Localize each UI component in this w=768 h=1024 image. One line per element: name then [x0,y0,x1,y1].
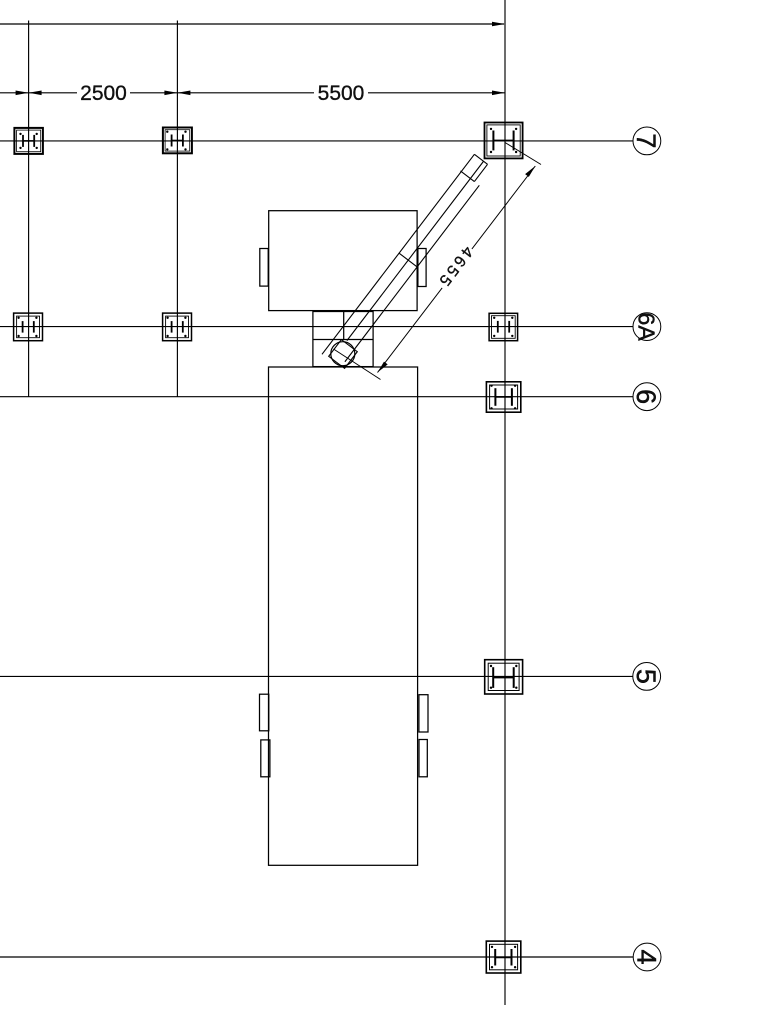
column K8 at grid 5 [485,660,523,694]
rear wheel right 1 [419,695,428,732]
crane swivel circle [331,342,355,366]
svg-text:6A: 6A [634,313,660,342]
column K7 at grid 6 [486,382,520,412]
column K6 at grid 6A right [489,313,517,340]
grid bubble 4 [633,943,661,971]
svg-text:2500: 2500 [80,82,127,105]
arrowhead pair at grid A intersection x=28.6 [16,91,29,96]
grid bubble 6 [633,383,661,411]
grid bubble 5 [633,663,661,691]
grid line 4 [0,956,633,958]
mount horizontal divider [313,339,373,341]
boom upper side line [322,154,474,354]
crane mount frame [313,312,373,367]
right front wheel tab [418,249,426,287]
grid line 7 [0,140,633,142]
column K2 at grid B/7 [163,128,192,154]
left front wheel tab [260,249,268,287]
grid line vertical V3 [504,0,506,1005]
grid bubble 6A [633,313,661,341]
grid extension line vertical V1 [28,21,30,397]
mount vertical divider [343,312,345,340]
boom tip lower edge [474,164,487,181]
arrowhead right of overall top dimension [492,22,505,27]
column K1 at grid A/7 [14,128,43,154]
rear wheel left 2 [261,740,270,777]
boom middle line [347,161,484,340]
dimension extension line at swivel [334,349,381,380]
svg-text:5500: 5500 [318,82,365,105]
arrowhead right at x=505 [492,91,505,96]
grid bubble 7 [633,127,661,155]
dimension text 4655 [433,242,477,292]
truck body [269,367,418,865]
boom joint cap [399,253,417,267]
rear wheel left 1 [260,694,269,731]
column K3 at grid 7 large [485,123,523,159]
crane superstructure body [269,211,417,311]
arrowhead upper of 4655 [525,166,535,177]
arrowhead lower of 4655 [378,362,388,373]
grid line 6A [0,326,633,328]
column K5 at grid B/6A [163,313,192,341]
grid extension line vertical V2 [176,21,178,397]
column K9 at grid 4 [486,941,521,973]
dimension line 4655 [378,166,536,373]
dimension line chain [0,92,77,94]
boom tip joint cap [460,171,474,182]
svg-text:4: 4 [631,949,661,964]
dimension line overall top [0,23,504,25]
dimension extension line at column 7 [505,143,541,165]
rear wheel right 2 [419,740,427,777]
boom tip end cap [474,154,487,164]
crane boom group [321,154,495,371]
grid line 6 [0,396,633,398]
svg-text:5: 5 [631,669,661,684]
column K4 at grid A/6A [14,313,43,341]
svg-text:6: 6 [631,389,661,404]
arrowhead pair at grid B intersection x=177.4 [164,91,177,96]
svg-text:4655: 4655 [434,243,476,291]
boom lower side line [345,185,479,361]
boom butt box [329,340,358,369]
grid line 5 [0,675,633,677]
svg-text:7: 7 [631,133,661,148]
